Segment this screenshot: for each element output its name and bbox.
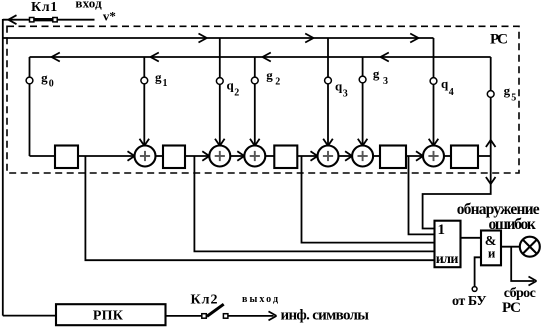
adder XOR A2 — [209, 146, 230, 167]
svg-text:3: 3 — [343, 88, 348, 99]
svg-text:q: q — [227, 78, 235, 93]
svg-text:Кл2: Кл2 — [191, 292, 218, 307]
arrow into adder4 left — [311, 151, 318, 161]
wire ot BU to AND — [475, 257, 481, 286]
wire OR to AND — [461, 237, 482, 239]
wire register end down to OR elbow — [423, 156, 491, 229]
AND gate box — [481, 231, 501, 266]
wire square3 tap to OR — [302, 156, 435, 243]
svg-text:q: q — [335, 79, 343, 94]
svg-text:и: и — [488, 245, 496, 260]
lamp indicator circle with X — [520, 237, 540, 257]
adder XOR A5 — [352, 146, 373, 167]
arrow left on line2 at 383 — [381, 53, 389, 62]
svg-text:1: 1 — [438, 222, 446, 238]
arrow into adder2 top — [215, 139, 225, 146]
node q3 circle — [325, 77, 332, 84]
arrow down on register end wire — [486, 177, 496, 184]
wire q3 vertical — [327, 38, 329, 146]
wire square4 tap to OR — [409, 156, 435, 234]
wire square2 to adder2 — [185, 155, 209, 157]
wire square1 to adder1 — [78, 155, 135, 157]
register cell square3 — [274, 146, 297, 169]
register cell square5 — [451, 146, 478, 169]
wire square5 to feedback node — [478, 155, 491, 157]
OR gate box — [435, 221, 461, 268]
svg-text:g: g — [504, 83, 511, 98]
adder XOR A6 — [423, 146, 444, 167]
switch Kl1 contact left — [30, 18, 34, 22]
wire g0 vertical — [29, 57, 31, 156]
wire adder5 to square4 — [373, 155, 380, 157]
arrow up on g5 wire — [486, 140, 496, 147]
arrow into adder5 top — [358, 139, 368, 146]
arrow right on line1 at 311 — [305, 34, 313, 43]
switch Kl1 blade — [34, 18, 54, 21]
adder XOR A1 — [135, 146, 156, 167]
arrow left on line2 at 265 — [263, 53, 271, 62]
svg-text:5: 5 — [511, 93, 516, 104]
arrow into adder6 top — [429, 139, 439, 146]
svg-text:4: 4 — [449, 87, 454, 98]
node g0 circle — [26, 77, 33, 84]
arrow into adder4 top — [323, 139, 333, 146]
svg-text:q: q — [441, 76, 449, 91]
wire AND to lamp — [501, 246, 520, 248]
switch Kl2 contact right — [223, 314, 228, 319]
wire reset branch — [511, 247, 534, 281]
svg-text:2: 2 — [234, 88, 239, 99]
svg-text:g: g — [373, 66, 380, 81]
svg-text:0: 0 — [49, 79, 54, 90]
arrow into adder1 top — [140, 139, 150, 146]
svg-text:вход: вход — [75, 0, 102, 11]
svg-text:2: 2 — [275, 76, 280, 87]
svg-text:или: или — [436, 252, 459, 267]
arrow left into corner — [8, 15, 16, 24]
svg-text:от БУ: от БУ — [452, 294, 487, 309]
wire adder1 to square2 — [156, 155, 164, 157]
arrow output — [269, 311, 277, 320]
node g2 circle — [251, 77, 258, 84]
dashed box PC register — [7, 26, 519, 173]
wire g2 vertical — [254, 57, 256, 146]
arrow into adder2 left — [202, 151, 209, 161]
wire q4 vertical from line1 corner — [433, 38, 435, 146]
wire q2 vertical — [219, 38, 221, 146]
svg-text:инф. символы: инф. символы — [281, 307, 370, 323]
wire left outer vertical — [2, 19, 4, 316]
arrow left on line2 at 153 — [151, 53, 159, 62]
svg-text:Кл1: Кл1 — [31, 0, 57, 15]
arrow right on line1 at 416 — [410, 34, 418, 43]
switch Kl2 contact left — [202, 314, 207, 319]
wire adder6 to square5 — [444, 155, 451, 157]
switch Kl1 contact right — [53, 18, 57, 22]
wire g0 to square1 — [30, 155, 56, 157]
wire g1 vertical — [143, 57, 145, 146]
register cell square2 — [163, 146, 185, 169]
svg-text:g: g — [41, 70, 48, 85]
node g1 circle — [141, 77, 148, 84]
arrow right reset — [529, 277, 537, 286]
wire Kl2 to output arrow — [228, 315, 274, 317]
wire line1 input bus y=38 — [3, 37, 434, 39]
switch Kl2 blade open — [207, 304, 224, 316]
wire g5 vertical feedback from register end — [490, 57, 492, 156]
wire square4 to adder6 — [406, 155, 423, 157]
wire adder3 to square3 — [265, 155, 274, 157]
node ot BU circle — [472, 287, 477, 292]
svg-text:РС: РС — [490, 32, 508, 48]
svg-text:g: g — [155, 70, 162, 85]
adder XOR A4 — [318, 146, 339, 167]
wire input v* to switch — [58, 19, 95, 21]
svg-text:выход: выход — [242, 294, 278, 305]
RPK box — [56, 304, 166, 325]
wire g3 vertical — [362, 57, 364, 146]
arrow into adder5 left — [345, 151, 352, 161]
arrow into adder3 left — [237, 151, 244, 161]
wire square2 tap to OR — [194, 156, 434, 251]
svg-text:g: g — [266, 68, 273, 83]
wire RPK to Kl2 — [166, 315, 203, 317]
wire line2 feedback bus y=57 — [30, 56, 491, 58]
svg-text:РС: РС — [502, 300, 521, 316]
arrow into adder3 top — [250, 139, 260, 146]
node g5 circle — [487, 91, 494, 98]
arrow left on line2 at 54 — [52, 53, 60, 62]
wire switch to left corner — [3, 19, 29, 21]
wire adder2 to adder3 — [230, 155, 244, 157]
arrow into adder1 left — [128, 151, 135, 161]
adder XOR A3 — [244, 146, 265, 167]
node q2 circle — [216, 78, 223, 85]
register cell square4 — [380, 146, 406, 169]
node g3 circle — [359, 76, 366, 83]
arrow right on line1 at 204 — [199, 34, 207, 43]
wire left vertical to RPK — [3, 315, 56, 317]
wire square3 to adder4 — [297, 155, 317, 157]
svg-text:1: 1 — [163, 78, 168, 89]
svg-text:РПК: РПК — [93, 309, 124, 324]
wire square1 tap to OR — [85, 156, 434, 260]
register cell square1 — [55, 146, 78, 169]
node q4 circle — [430, 78, 437, 85]
arrow into adder6 left — [416, 151, 423, 161]
svg-text:v*: v* — [103, 8, 116, 23]
svg-text:3: 3 — [383, 76, 388, 87]
wire adder4 to adder5 — [339, 155, 353, 157]
